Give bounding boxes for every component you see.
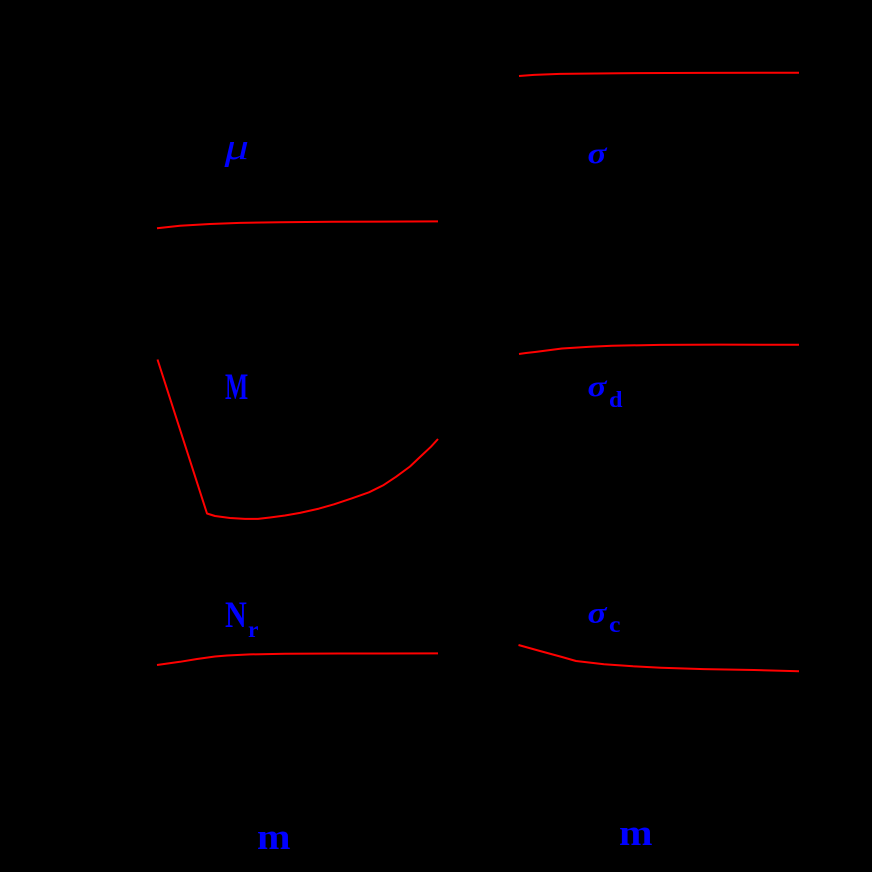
- curve sigma_d (middle-right panel): [519, 345, 799, 354]
- svg-text:m: m: [619, 813, 653, 854]
- svg-text:d: d: [609, 387, 623, 412]
- svg-text:r: r: [248, 617, 259, 642]
- curve N_r (bottom-left panel): [157, 653, 438, 665]
- curve M (middle-left panel): [158, 360, 439, 519]
- svg-text:m: m: [257, 817, 291, 858]
- svg-text:σ: σ: [588, 597, 608, 630]
- svg-text:μ: μ: [223, 127, 249, 168]
- curve mu (top-left panel): [157, 221, 438, 228]
- svg-text:c: c: [609, 612, 621, 637]
- svg-text:M: M: [225, 367, 248, 408]
- svg-text:σ: σ: [588, 137, 608, 170]
- svg-text:σ: σ: [588, 370, 608, 403]
- svg-text:N: N: [225, 595, 247, 636]
- curve sigma (top-right panel): [519, 73, 799, 76]
- curve sigma_c (bottom-right panel): [519, 645, 800, 671]
